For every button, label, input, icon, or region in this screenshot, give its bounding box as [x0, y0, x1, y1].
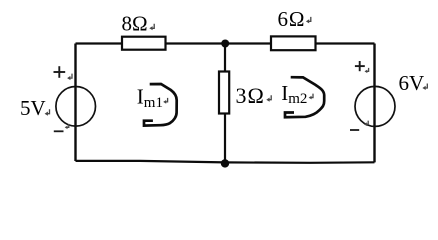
node top junction dot: [221, 40, 229, 48]
wire left: [74, 44, 76, 162]
mesh current arrow Im2: [285, 77, 324, 117]
return mark after 6V: [422, 84, 427, 91]
plus sign left source: [54, 66, 66, 78]
return mark after plus right: [365, 68, 369, 73]
resistor 6ohm: [271, 36, 316, 50]
return mark after plus left: [67, 74, 72, 81]
node bottom junction dot: [221, 159, 229, 167]
wire bottom: [76, 161, 375, 163]
return mark after minus left: [65, 124, 69, 129]
resistor 3ohm: [219, 72, 229, 114]
return mark after Im2: [309, 94, 313, 100]
minus sign left source: [54, 130, 64, 132]
plus sign right source: [355, 61, 365, 71]
wire middle branch: [224, 44, 226, 163]
return mark after minus right: [364, 121, 368, 126]
wire right: [373, 44, 375, 163]
minus sign right source: [350, 129, 359, 131]
return mark after 6ohm: [306, 17, 311, 24]
return mark after 3ohm: [266, 95, 271, 102]
source 5V circle: [56, 87, 96, 127]
return mark after Im1: [163, 98, 167, 104]
mesh current arrow Im1: [144, 84, 177, 126]
return mark after 8ohm: [149, 24, 154, 31]
resistor 8ohm: [122, 37, 166, 50]
svg-text:3Ω: 3Ω: [236, 83, 265, 108]
svg-text:6V: 6V: [399, 71, 425, 95]
source 6V circle: [355, 86, 395, 126]
svg-text:5V: 5V: [20, 96, 46, 120]
wire top: [76, 42, 375, 44]
return mark after 5V: [45, 109, 50, 116]
svg-text:6Ω: 6Ω: [278, 7, 306, 31]
svg-text:8Ω: 8Ω: [122, 12, 148, 36]
